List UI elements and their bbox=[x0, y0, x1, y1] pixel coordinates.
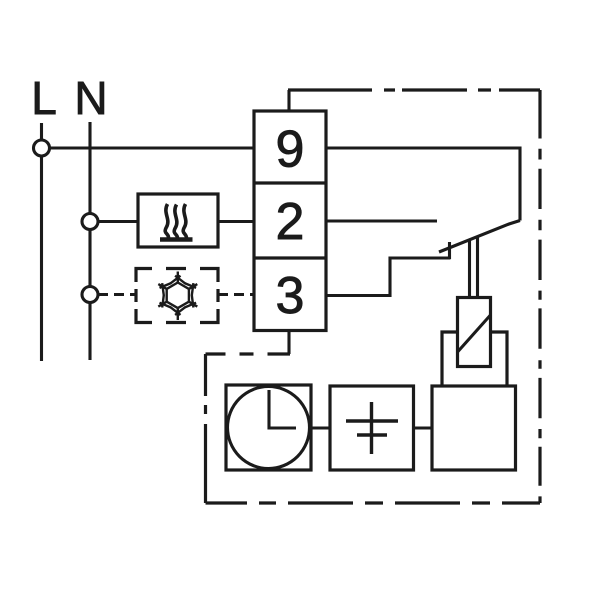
enclosure boundary top-left bbox=[206, 352, 291, 355]
wire clock to adjuster bbox=[311, 426, 330, 429]
switch arm bbox=[439, 221, 520, 253]
sensor bellows box bbox=[458, 298, 491, 367]
heater load E1 box bbox=[138, 194, 218, 247]
node L bbox=[34, 140, 50, 156]
enclosure boundary left bbox=[204, 354, 207, 503]
relay box bbox=[432, 386, 516, 470]
wire terminal 2 fixed contact side bbox=[326, 219, 437, 222]
enclosure boundary bottom bbox=[206, 501, 541, 504]
heater icon heat waves bbox=[160, 204, 193, 240]
terminal block bbox=[254, 111, 326, 331]
sensor cup box bbox=[442, 332, 458, 386]
wire heater to terminal 2 bbox=[218, 220, 254, 223]
svg-text:3: 3 bbox=[276, 267, 305, 325]
cooling icon snowflake bbox=[158, 272, 197, 321]
sensor bellows diagonal bbox=[458, 315, 491, 352]
wire cooler to terminal 3 (dashed) bbox=[218, 293, 254, 296]
wire N1 to heater bbox=[98, 220, 138, 223]
wire terminal block top stub bbox=[287, 90, 290, 111]
wire terminal 9 to switch pivot bbox=[326, 148, 520, 221]
wire N2 to cooler (dashed) bbox=[98, 293, 136, 296]
clock hands bbox=[269, 390, 296, 428]
clock box bbox=[226, 385, 311, 470]
svg-text:L: L bbox=[31, 72, 57, 124]
svg-text:N: N bbox=[74, 72, 107, 124]
svg-text:2: 2 bbox=[276, 193, 305, 251]
switch fixed contact bbox=[448, 242, 451, 259]
enclosure boundary right bbox=[538, 90, 541, 503]
enclosure boundary top bbox=[288, 88, 540, 91]
wire L vertical bbox=[40, 123, 43, 361]
node N1 bbox=[82, 214, 98, 230]
adjuster symbol bbox=[370, 402, 373, 454]
mechanical link rods bbox=[468, 241, 471, 298]
wire terminal 3 to contact bbox=[326, 258, 451, 296]
wire terminal block bottom stub bbox=[287, 331, 290, 355]
svg-text:9: 9 bbox=[276, 121, 305, 179]
wire L to terminal 9 bbox=[42, 146, 255, 149]
node N2 bbox=[82, 287, 98, 303]
clock face bbox=[228, 387, 310, 469]
setpoint adjuster box bbox=[330, 386, 414, 470]
cooling load box (dashed) bbox=[136, 269, 218, 323]
wire adjuster to relay bbox=[414, 426, 433, 429]
wire N vertical bbox=[88, 122, 91, 360]
